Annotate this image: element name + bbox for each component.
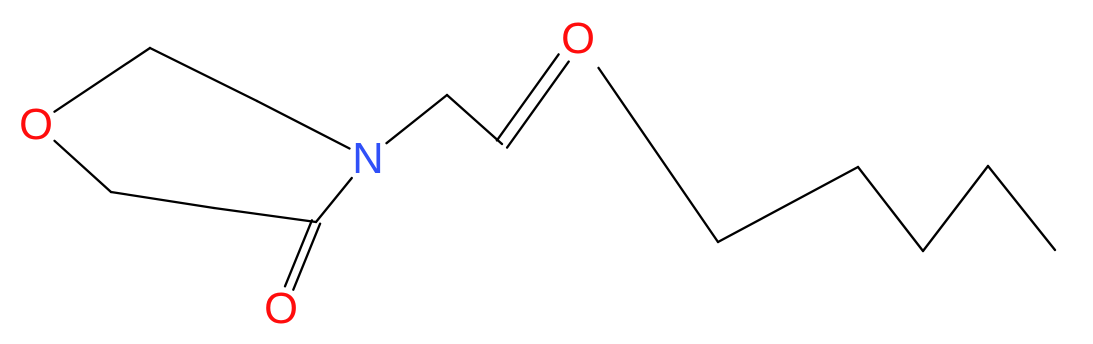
svg-text:N: N [352, 135, 383, 183]
svg-text:O: O [264, 285, 298, 333]
svg-text:O: O [561, 15, 595, 63]
svg-text:O: O [19, 101, 53, 149]
